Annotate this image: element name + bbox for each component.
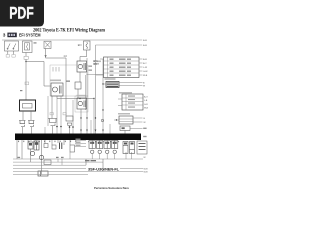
J/B1 cell marks <box>110 59 132 76</box>
check connector ring B <box>39 155 43 159</box>
svg-text:J/B: J/B <box>94 64 98 66</box>
injector I4 <box>112 141 118 154</box>
label above R2 <box>50 80 61 82</box>
arrowhead into ECU x87 <box>86 130 88 132</box>
wires below ECU <box>17 140 70 175</box>
svg-text:3: 3 <box>3 33 6 39</box>
node dot <box>93 98 94 99</box>
wire x57 to ECU <box>56 99 58 134</box>
sensor box S2 <box>75 82 81 89</box>
label right of R1 <box>93 61 101 63</box>
resistor block B9 <box>137 141 147 154</box>
diagnosis connector D1 <box>20 100 36 111</box>
vertical wire x94 <box>93 99 95 134</box>
wire R2 bottom <box>56 96 58 99</box>
stub J/B1 left <box>100 58 104 60</box>
B3 node dot <box>116 119 117 120</box>
fuel pump relay R3 <box>77 98 87 109</box>
label specks near ground lines <box>18 81 71 159</box>
svg-text:B-O: B-O <box>144 97 148 99</box>
sensor box S3 <box>66 116 73 121</box>
relay box K1 with X <box>44 41 51 48</box>
injector I2 <box>97 141 103 154</box>
wire tag left <box>50 113 53 115</box>
ground bus lines <box>13 159 143 175</box>
bus wire y98.5 <box>57 98 94 100</box>
junction dots above ECU <box>80 117 96 118</box>
junction dots above bar left <box>56 126 74 128</box>
connector glyph G1 <box>19 121 26 127</box>
ignition switch SW1 <box>5 41 19 51</box>
pin ticks 1 2 3 <box>53 67 59 72</box>
wire x52 down <box>51 96 53 119</box>
pin label AM2 <box>6 55 9 58</box>
wire FL1 down <box>25 53 27 57</box>
wire x66 long <box>65 58 67 116</box>
svg-text:W: W <box>144 157 146 159</box>
pressure block B3 <box>119 116 133 124</box>
junction block J/B1 <box>104 57 140 78</box>
J/B2 left stubs <box>118 98 122 100</box>
V1 left stub <box>103 83 106 85</box>
svg-text:B-R: B-R <box>143 40 147 42</box>
pin specks below ECU right <box>88 141 119 142</box>
section header dark box <box>7 33 16 38</box>
bus wire y58 <box>46 57 67 59</box>
J/B1 right stubs <box>139 59 143 75</box>
top frame wire <box>2 39 142 41</box>
wire R1 to S2 <box>79 72 81 82</box>
page background <box>0 0 149 198</box>
svg-text:B-R: B-R <box>143 45 147 47</box>
connector label on wire <box>24 56 28 59</box>
svg-text:Pertamina Samudera Baru: Pertamina Samudera Baru <box>94 186 129 190</box>
small box inner mark <box>122 127 125 129</box>
stub labels <box>76 139 81 146</box>
check connector V1 hatched <box>106 82 119 88</box>
junction block J/B2 <box>122 94 143 110</box>
svg-text:B-R: B-R <box>143 59 147 61</box>
coil box B8 <box>70 145 75 152</box>
J/B2 cell marks <box>128 96 135 108</box>
sensor box B4 <box>28 142 33 149</box>
small box B7 <box>52 145 56 149</box>
arrowhead into ECU x81 <box>80 130 82 132</box>
ground component <box>38 171 48 176</box>
label tag on long wire <box>25 82 29 85</box>
bus wire y61.5 <box>26 61 44 63</box>
D1 bottom stubs <box>22 111 24 120</box>
svg-text:W: W <box>144 122 146 124</box>
injector I3 <box>104 141 110 154</box>
injector I1 <box>89 141 95 154</box>
connector arrow on wire <box>44 55 46 57</box>
specks right of ECU bar <box>143 136 146 137</box>
vertical wire x95.5 <box>95 45 97 134</box>
wire x110 to ECU <box>109 124 111 134</box>
injector ground wires <box>92 154 115 160</box>
fuse EFI F1 <box>84 41 91 50</box>
SW1 wire AM2 <box>7 51 9 55</box>
wire x45 to ECU <box>44 127 46 134</box>
capacitor C1 <box>60 143 62 150</box>
ground label box <box>44 160 51 165</box>
vertical wire x103 <box>102 59 104 134</box>
svg-text:W-B: W-B <box>144 168 149 170</box>
V1 right stubs <box>119 82 143 84</box>
enclosure E2 <box>75 96 88 112</box>
arrowhead into ECU x95.5 <box>95 130 97 132</box>
ignition coil T1 <box>123 142 135 154</box>
svg-text:PDF: PDF <box>9 4 34 23</box>
arrowhead into ECU x103 <box>102 130 104 132</box>
wire F1 to relay R1 <box>80 50 87 61</box>
svg-text:W-B: W-B <box>144 108 149 110</box>
wires into ECU <box>23 126 126 134</box>
node dot <box>102 109 103 110</box>
stub from small box to right <box>130 128 143 130</box>
stub label <box>143 128 146 129</box>
svg-text:2002 Toyota E-7K EFI Wiring Di: 2002 Toyota E-7K EFI Wiring Diagram <box>33 29 106 34</box>
tick connectors between ground lines <box>58 152 132 165</box>
svg-text:ST1: ST1 <box>94 61 99 63</box>
engine code small text <box>85 160 96 161</box>
wire x61 to ECU <box>60 96 62 134</box>
vertical wire x85.5 <box>85 75 87 110</box>
label above R3 <box>77 95 86 97</box>
wire x91 to ECU <box>90 120 92 134</box>
FL label <box>34 42 37 43</box>
ECT stub rows <box>75 141 86 147</box>
connector ring <box>101 119 104 122</box>
vertical ground x103 <box>102 159 104 171</box>
V1 label above <box>105 78 116 80</box>
junction dot y61.5 <box>25 61 26 62</box>
glyph under S3 <box>67 123 72 126</box>
wire tag right <box>63 113 66 115</box>
J/B2 label above <box>119 92 132 94</box>
connector glyph G2 <box>28 121 35 127</box>
connector glyph G3 <box>48 119 57 126</box>
svg-text:EFI: EFI <box>78 45 82 47</box>
wire y45 <box>96 44 143 46</box>
wire to node D1 <box>25 59 27 100</box>
EFI main relay R1 <box>77 61 87 72</box>
J/B1 bottom left stub <box>96 74 104 76</box>
wire color tags <box>89 66 93 71</box>
wire K1 down <box>45 49 47 59</box>
B3 stubs <box>133 117 143 119</box>
ECU bar <box>15 134 141 141</box>
wire R3 to ECU <box>80 109 82 134</box>
wire relay A to J/B1 <box>87 74 104 76</box>
PDF badge <box>0 0 44 27</box>
wire x48 down <box>47 96 49 126</box>
SW1 wire IG2 <box>13 51 15 55</box>
vertical ground x86 <box>85 159 87 165</box>
fusible link block FL1 <box>23 41 33 53</box>
check connector ring A <box>30 151 34 155</box>
svg-text:EFI SYSTEM: EFI SYSTEM <box>19 33 41 38</box>
svg-text:G-R: G-R <box>144 104 148 106</box>
vertical wire x87 <box>86 58 88 134</box>
svg-text:B-Y: B-Y <box>143 63 147 65</box>
V1 node dot <box>102 83 103 84</box>
node dot <box>79 98 80 99</box>
pin number specks below ECU <box>18 141 76 143</box>
svg-text:W-B: W-B <box>143 75 148 77</box>
wire S2 to R3 <box>77 89 79 98</box>
wire from bus to relay R2 <box>44 62 51 87</box>
enclosure dashed E1 <box>50 65 88 96</box>
svg-text:3SF-U3G/NEN-FL: 3SF-U3G/NEN-FL <box>88 168 120 172</box>
small box above ECU <box>120 126 130 131</box>
sensor box B5 <box>34 141 39 150</box>
small box B6 <box>44 144 48 148</box>
pin label IG2 <box>12 55 15 58</box>
wire x73 to ECU <box>72 100 74 134</box>
svg-text:W-B: W-B <box>144 171 149 173</box>
circuit opening relay R2 <box>51 83 63 96</box>
B3 label above <box>118 113 130 115</box>
